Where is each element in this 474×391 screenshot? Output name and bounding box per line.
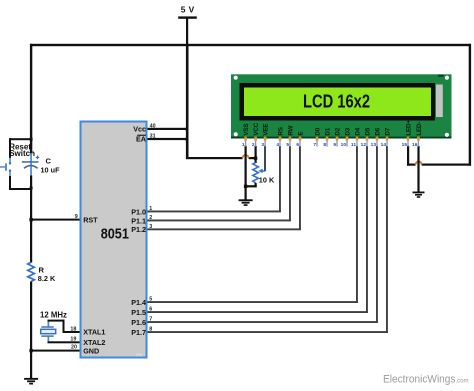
pin label P1.4 [131,298,146,307]
svg-text:40: 40 [150,123,156,129]
LCD pin numbers [242,142,418,148]
LCD corner mark [438,75,444,77]
wire: D4 to P1.4 [148,146,358,303]
pin label RST [83,215,98,224]
wire: GND pin to 8051 [31,350,80,352]
wire: D5 to P1.5 [148,146,368,313]
svg-text:D6: D6 [374,127,381,135]
svg-text:P1.0: P1.0 [131,207,146,216]
LCD screen text [303,90,370,111]
LCD zebra strip [436,85,443,118]
ground symbol LED- [413,192,425,198]
pin label P1.1 [131,216,146,225]
pin number 5 [149,297,152,303]
node: EA junction on rail [186,138,189,141]
pin label XTAL1 [83,328,105,337]
svg-text:5 V: 5 V [181,5,195,15]
wire: RST to 8051 [31,219,80,221]
LCD pin stubs [246,141,419,147]
svg-text:GND: GND [83,346,99,355]
svg-text:VCC: VCC [253,122,260,135]
crystal X1 12MHz [41,321,56,343]
svg-text:D3: D3 [344,127,351,135]
svg-text:16: 16 [412,142,418,148]
svg-text:7: 7 [313,142,316,148]
pin label XTAL2 [83,338,105,347]
svg-text:18: 18 [70,326,76,332]
ground symbol under pot [239,199,253,206]
pin label P1.0 [131,207,146,216]
wire: LED- pin16 to ground [417,146,419,192]
pin number 40 [150,123,156,129]
svg-text:P1.6: P1.6 [131,318,146,327]
svg-text:20: 20 [71,345,77,351]
pin number 6 [149,307,152,313]
svg-text:LED+: LED+ [405,120,412,136]
wire: crystal top to XTAL1 [48,320,81,333]
pin number 2 [149,215,152,221]
pin label GND [83,346,99,355]
LCD pin labels rotated [243,120,423,136]
pin number 3 [149,224,152,230]
svg-text:P1.4: P1.4 [131,298,146,307]
pin number 1 [149,206,152,212]
node: reset branch bottom junction [30,187,33,190]
wire: 5V feed to LCD VCC with hop [186,157,257,159]
svg-text:2: 2 [252,142,255,148]
pin label Vcc [133,124,146,133]
LCD pin pads [244,137,419,141]
svg-text:D5: D5 [364,127,371,135]
svg-text:9: 9 [75,214,78,220]
svg-text:5: 5 [286,142,289,148]
power 5V label and bar [178,5,197,47]
wire: E to P1.2 [148,146,301,230]
svg-text:P1.1: P1.1 [131,216,146,225]
svg-text:3: 3 [261,142,264,148]
pin number 18 [70,326,76,332]
wire: Vcc pin 40 to 5V rail [148,128,189,130]
wire: left vertical resistor to bottom ground [30,282,32,379]
svg-text:D4: D4 [354,127,361,135]
wire: RS to P1.0 [148,146,281,212]
svg-text:LCD 16x2: LCD 16x2 [303,90,370,111]
LCD screen bezel [240,83,436,121]
label R [39,265,45,274]
wire: D7 to P1.7 [148,146,388,333]
wire: reset branch left upper [9,138,11,163]
pushbutton reset switch [0,162,11,171]
wire: reset branch top [9,138,32,140]
wire: left vertical from rail down to capacitor [30,44,32,155]
wire: RW to P1.1 [148,146,291,221]
wire: reset branch bottom [9,188,32,190]
label 12 MHz [40,310,67,319]
svg-text:XTAL1: XTAL1 [83,328,105,337]
wire: LCD pin1 VSS down [245,146,247,187]
label C [46,156,52,165]
LCD mounting holes [234,76,449,137]
pin number 9 [75,214,78,220]
label 8.2 K [38,274,56,283]
wire: D6 to P1.6 [148,146,378,323]
wire: right vertical to LED+ [469,44,471,166]
pin number 7 [149,317,152,323]
wire: LED+ pin15 to 5V [407,146,471,166]
svg-text:31: 31 [150,134,156,140]
node: RST junction [29,218,32,221]
label Reset Switch [9,143,35,158]
svg-text:14: 14 [381,142,387,148]
svg-text:6: 6 [296,142,299,148]
ground symbol bottom-left [24,378,38,385]
svg-text:8: 8 [323,142,326,148]
svg-text:RW: RW [287,125,294,135]
svg-text:RS: RS [277,127,284,135]
svg-text:5: 5 [149,297,152,303]
svg-text:P1.5: P1.5 [131,308,146,317]
pin label P1.7 [131,328,146,337]
svg-text:15: 15 [402,142,408,148]
svg-text:19: 19 [70,336,76,342]
svg-text:8.2 K: 8.2 K [38,274,56,283]
svg-text:D7: D7 [384,127,391,135]
svg-text:D2: D2 [334,127,341,135]
svg-text:LED-: LED- [416,122,423,136]
svg-text:4: 4 [276,142,279,148]
svg-text:10 K: 10 K [259,176,275,185]
IC U1 8051 body [81,122,147,359]
wiper arrow from VEE [259,169,266,174]
svg-text:1: 1 [242,142,245,148]
svg-text:10: 10 [341,142,347,148]
svg-text:12: 12 [361,142,367,148]
svg-text:6: 6 [149,307,152,313]
wire: reset branch left lower [9,171,11,190]
wire: crystal bottom to XTAL2 [48,341,81,343]
svg-text:VEE: VEE [263,124,270,136]
LCD module LCD1 16x2 body [231,74,452,138]
capacitor C 10uF [22,153,39,177]
hop arc over VSS wire [243,155,249,158]
node: Vcc junction on rail [186,128,189,131]
node: reset branch top junction [30,138,33,141]
wire: 5V vertical feed [186,44,189,159]
wire: LCD pin3 VEE down to wiper [264,146,266,171]
wire: EA pin 31 to 5V rail [148,138,189,140]
svg-text:7: 7 [149,317,152,323]
svg-text:P1.2: P1.2 [131,225,146,234]
svg-text:11: 11 [351,142,356,148]
svg-text:8051: 8051 [101,226,129,242]
svg-text:1: 1 [149,206,152,212]
svg-text:12 MHz: 12 MHz [40,310,67,319]
pin label EA with overline [136,134,146,143]
hop arc over LED- wire [416,162,422,165]
svg-text:ew: ew [136,352,143,358]
label 10 K [259,176,275,185]
wire: left vertical RST to resistor [30,220,32,263]
svg-text:D1: D1 [324,127,331,135]
svg-text:10 uF: 10 uF [41,166,61,175]
node: VSS pot junction [244,185,247,188]
svg-text:2: 2 [149,215,152,221]
svg-text:8: 8 [149,327,152,333]
wire: left vertical capacitor to RST [30,176,32,221]
wire: top 5V rail horizontal [30,44,471,46]
svg-text:ElectronicWings.com: ElectronicWings.com [383,374,469,386]
pin number 31 [150,134,156,140]
pin label P1.5 [131,308,146,317]
wire: pot bottom to VSS net [245,185,257,187]
node: GND junction [29,349,32,352]
pin number 8 [149,327,152,333]
potentiometer 10K zigzag [253,158,259,187]
svg-text:RST: RST [83,215,98,224]
svg-text:E: E [297,132,304,136]
wire: LCD pin2 VCC down [255,146,257,158]
pin label P1.2 [131,225,146,234]
wire: VSS to ground stem [245,187,247,201]
svg-text:P1.7: P1.7 [131,328,146,337]
pin number 20 [71,345,77,351]
node: VCC pot junction [254,157,257,160]
svg-text:C: C [46,156,52,165]
watermark ElectronicWings.com [383,374,469,386]
svg-text:VSS: VSS [243,124,250,136]
LCD screen [244,88,431,117]
label 10 uF [41,166,61,175]
svg-text:13: 13 [371,142,377,148]
svg-text:9: 9 [333,142,336,148]
svg-text:D0: D0 [314,127,321,135]
svg-text:Vcc: Vcc [133,124,146,133]
resistor R 8.2K [28,262,35,281]
pin label P1.6 [131,318,146,327]
pin number 19 [70,336,76,342]
svg-text:3: 3 [149,224,152,230]
